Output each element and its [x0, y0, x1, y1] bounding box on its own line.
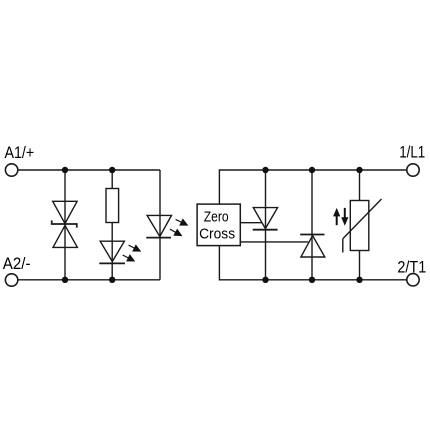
optocoupler emitter cathode bar — [146, 237, 171, 239]
terminal A1/+ — [5, 164, 17, 176]
optocoupler light arrow 2 — [168, 226, 184, 240]
wire bottom-left rail — [18, 279, 160, 281]
LED indicator cathode bar — [99, 262, 125, 264]
wire gate 1 — [240, 222, 262, 224]
thyristor V2 triangle — [253, 208, 277, 229]
LED indicator triangle — [100, 241, 124, 261]
wire top-left rail — [18, 169, 160, 171]
varistor RU diagonal — [343, 199, 382, 239]
svg-text:2/T1: 2/T1 — [397, 257, 426, 276]
zero-cross detector box — [197, 204, 240, 246]
junction right top 1 — [262, 167, 268, 173]
wire resistor branch — [111, 170, 113, 280]
junction right top 3 — [356, 167, 362, 173]
LED indicator light arrow 2 — [121, 251, 137, 265]
junction bottom rail A — [62, 277, 68, 283]
junction bottom rail B — [109, 277, 115, 283]
wire gate 2 — [240, 241, 308, 243]
suppressor diode V1 bottom triangle — [53, 225, 77, 247]
varistor RU foot — [342, 239, 344, 253]
svg-text:Cross: Cross — [199, 226, 235, 243]
optocoupler light arrow 1 — [174, 216, 190, 230]
wire thyristor 2 branch — [311, 170, 313, 280]
terminal 2/T1 — [407, 274, 419, 286]
svg-text:A1/+: A1/+ — [5, 143, 35, 162]
LED indicator light arrow 1 — [127, 242, 143, 256]
junction top rail B — [109, 167, 115, 173]
svg-text:A2/-: A2/- — [3, 254, 31, 273]
junction right top 2 — [309, 167, 315, 173]
optocoupler emitter triangle — [147, 215, 171, 236]
junction right bottom 1 — [262, 277, 268, 283]
wire TVS branch — [64, 170, 66, 280]
varistor RU body — [350, 201, 369, 251]
varistor arrow up — [333, 208, 340, 225]
wire optocoupler branch — [159, 170, 161, 280]
varistor arrow down — [341, 208, 348, 226]
junction right bottom 3 — [356, 277, 362, 283]
wire varistor branch — [359, 170, 361, 280]
junction right bottom 2 — [309, 277, 315, 283]
terminal 1/L1 — [407, 164, 419, 176]
wire thyristor 1 branch — [265, 170, 267, 280]
thyristor V3 triangle — [301, 236, 325, 257]
suppressor diode V1 z-bar — [52, 220, 77, 227]
junction top rail A — [62, 167, 68, 173]
suppressor diode V1 top triangle — [53, 201, 77, 223]
wire right top rail — [219, 170, 406, 204]
wire right bottom rail — [219, 246, 406, 280]
resistor R1 — [106, 189, 119, 223]
thyristor V3 cathode bar — [300, 234, 324, 236]
thyristor V2 cathode bar — [253, 229, 278, 231]
svg-text:1/L1: 1/L1 — [399, 142, 425, 161]
terminal A2/- — [5, 274, 17, 286]
svg-text:Zero: Zero — [204, 209, 229, 226]
